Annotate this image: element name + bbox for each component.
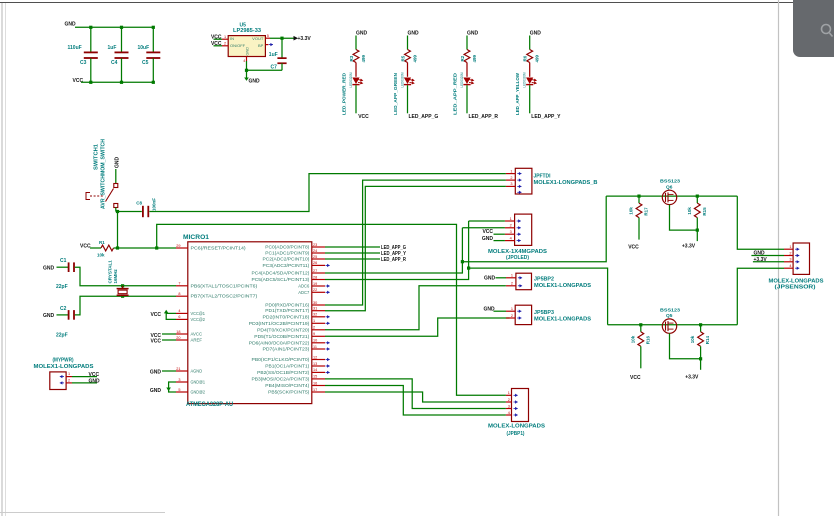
svg-text:7: 7 — [178, 282, 180, 286]
svg-text:1: 1 — [508, 391, 510, 395]
svg-text:+3.3V: +3.3V — [298, 36, 312, 42]
svg-text:17: 17 — [313, 388, 317, 392]
svg-text:GND: GND — [150, 388, 162, 394]
svg-text:10k: 10k — [97, 252, 105, 257]
svg-text:27: 27 — [313, 269, 317, 273]
svg-text:1: 1 — [224, 35, 226, 39]
svg-text:R2: R2 — [460, 55, 465, 61]
svg-text:LED_APP_RED: LED_APP_RED — [453, 72, 459, 115]
svg-text:GND: GND — [408, 30, 420, 36]
svg-text:BSS123: BSS123 — [660, 179, 680, 185]
svg-text:GND: GND — [43, 265, 55, 271]
svg-text:+3.3V: +3.3V — [682, 244, 696, 250]
svg-text:C3: C3 — [80, 60, 87, 66]
svg-text:VCC: VCC — [80, 243, 91, 249]
svg-text:ADC7: ADC7 — [298, 290, 310, 295]
svg-text:18: 18 — [176, 330, 180, 334]
svg-text:24: 24 — [313, 249, 317, 253]
svg-text:GND@1: GND@1 — [191, 380, 206, 385]
svg-text:GND: GND — [484, 307, 496, 313]
svg-text:Q5: Q5 — [666, 313, 673, 319]
svg-text:25: 25 — [313, 255, 317, 259]
svg-text:499: 499 — [535, 54, 540, 62]
svg-text:VCC@1: VCC@1 — [191, 311, 206, 316]
svg-text:100nF: 100nF — [152, 198, 157, 211]
svg-text:GND@2: GND@2 — [191, 390, 206, 395]
svg-text:9: 9 — [313, 332, 315, 336]
svg-text:VCC: VCC — [358, 114, 369, 120]
svg-text:PD3(INT1/OC2B/PCINT19): PD3(INT1/OC2B/PCINT19) — [249, 321, 310, 326]
svg-text:1: 1 — [510, 217, 512, 221]
svg-text:+3.3V: +3.3V — [685, 374, 699, 380]
svg-text:R16: R16 — [645, 336, 650, 345]
svg-text:10k: 10k — [687, 207, 692, 215]
svg-text:PD2(INT0/PCINT18): PD2(INT0/PCINT18) — [263, 314, 310, 319]
svg-text:C7: C7 — [271, 65, 278, 71]
svg-text:C8: C8 — [136, 201, 142, 206]
svg-text:JP5BP3: JP5BP3 — [534, 310, 554, 316]
svg-text:Q6: Q6 — [666, 184, 673, 190]
svg-text:LED_APP_YELLOW: LED_APP_YELLOW — [515, 73, 521, 115]
svg-text:CRYSTAL1: CRYSTAL1 — [108, 260, 113, 284]
svg-text:3: 3 — [789, 258, 791, 262]
svg-text:19: 19 — [313, 282, 317, 286]
svg-text:ON/OFF: ON/OFF — [230, 43, 246, 48]
svg-text:PC3(ADC3/PCINT11): PC3(ADC3/PCINT11) — [263, 263, 310, 268]
svg-text:MOLEX-LONGPADS: MOLEX-LONGPADS — [488, 424, 546, 430]
svg-text:4: 4 — [508, 411, 510, 415]
svg-text:1: 1 — [511, 274, 513, 278]
svg-text:VCC: VCC — [73, 78, 84, 84]
svg-text:PB6(XTAL1/TOSC1/PCINT6): PB6(XTAL1/TOSC1/PCINT6) — [191, 283, 258, 288]
svg-text:AVR_SWITCHMOM_SWITCH: AVR_SWITCHMOM_SWITCH — [101, 139, 107, 209]
svg-text:PD7(AIN1/PCINT23): PD7(AIN1/PCINT23) — [263, 347, 310, 352]
svg-text:12: 12 — [313, 355, 317, 359]
svg-text:16: 16 — [313, 381, 317, 385]
svg-text:GND: GND — [43, 313, 55, 319]
svg-text:C1: C1 — [60, 258, 67, 264]
svg-text:C5: C5 — [142, 60, 149, 66]
svg-text:3: 3 — [508, 404, 510, 408]
svg-text:2: 2 — [511, 282, 513, 286]
svg-text:PC0(ADC0/PCINT8): PC0(ADC0/PCINT8) — [265, 245, 310, 250]
svg-text:4: 4 — [789, 264, 791, 268]
svg-text:10uF: 10uF — [138, 45, 150, 51]
svg-text:MOLEX1-LONGPADS: MOLEX1-LONGPADS — [34, 364, 95, 370]
svg-text:2: 2 — [789, 251, 791, 255]
svg-text:PC4(ADC4/SDA/PCINT12): PC4(ADC4/SDA/PCINT12) — [252, 271, 310, 276]
svg-text:PD4(T0/XCK/PCINT20): PD4(T0/XCK/PCINT20) — [257, 327, 310, 332]
svg-text:VCC: VCC — [150, 339, 161, 345]
svg-text:AVCC: AVCC — [191, 332, 203, 337]
svg-text:GND: GND — [89, 378, 101, 384]
svg-text:2: 2 — [68, 378, 70, 382]
svg-text:C2: C2 — [60, 306, 67, 312]
svg-text:PB1(OC1A/PCINT1): PB1(OC1A/PCINT1) — [265, 364, 310, 369]
svg-text:ATMEGA328P-AU: ATMEGA328P-AU — [186, 402, 233, 408]
svg-text:4: 4 — [178, 309, 180, 313]
svg-text:LED_POWER_RED: LED_POWER_RED — [342, 72, 348, 115]
svg-text:AREF: AREF — [191, 338, 203, 343]
svg-text:VCC: VCC — [628, 244, 639, 250]
svg-text:JPFTDI: JPFTDI — [534, 174, 552, 180]
svg-text:GND: GND — [356, 30, 368, 36]
svg-text:VCC: VCC — [150, 312, 161, 318]
svg-text:5: 5 — [178, 388, 180, 392]
svg-text:3: 3 — [510, 182, 512, 186]
svg-text:PD1(TXD/PCINT17): PD1(TXD/PCINT17) — [265, 308, 310, 313]
svg-text:4: 4 — [243, 59, 245, 63]
svg-text:GND: GND — [65, 22, 77, 28]
svg-text:20: 20 — [176, 336, 180, 340]
svg-text:LED0320M: LED0320M — [401, 72, 405, 87]
svg-text:AGND: AGND — [191, 369, 203, 374]
svg-text:1: 1 — [68, 372, 70, 376]
svg-text:VCC: VCC — [482, 229, 493, 235]
svg-text:PD5(T1/OC0B/PCINT21): PD5(T1/OC0B/PCINT21) — [254, 334, 310, 339]
svg-text:10k: 10k — [629, 207, 634, 215]
svg-text:1: 1 — [510, 169, 512, 173]
svg-text:GND: GND — [482, 236, 494, 242]
svg-text:GND: GND — [467, 30, 479, 36]
svg-text:16MHz: 16MHz — [113, 268, 118, 283]
svg-text:22pF: 22pF — [56, 284, 68, 290]
svg-text:PD6(AIN0/OC0A/PCINT22): PD6(AIN0/OC0A/PCINT22) — [249, 340, 310, 345]
svg-text:C4: C4 — [111, 60, 118, 66]
svg-text:3: 3 — [178, 378, 180, 382]
svg-text:4: 4 — [510, 236, 512, 240]
svg-text:VOUT: VOUT — [252, 36, 264, 41]
svg-text:10k: 10k — [690, 335, 695, 343]
svg-text:LED_APP_R: LED_APP_R — [469, 114, 499, 120]
svg-text:PB3(MOSI/OC2A/PCINT3): PB3(MOSI/OC2A/PCINT3) — [252, 376, 310, 381]
svg-text:LED0320M: LED0320M — [349, 72, 353, 87]
svg-text:13: 13 — [313, 362, 317, 366]
svg-text:VCC@2: VCC@2 — [191, 317, 206, 322]
svg-text:JP5BP2: JP5BP2 — [534, 277, 554, 283]
svg-text:6: 6 — [178, 315, 180, 319]
svg-text:3: 3 — [510, 230, 512, 234]
svg-text:499: 499 — [472, 54, 477, 62]
svg-text:(JPBP1): (JPBP1) — [507, 431, 525, 437]
svg-text:VCC: VCC — [630, 375, 641, 381]
svg-text:14: 14 — [313, 368, 317, 372]
svg-text:R1: R1 — [99, 240, 105, 245]
svg-text:SWITCH1: SWITCH1 — [94, 144, 100, 170]
svg-text:1: 1 — [511, 307, 513, 311]
svg-text:(JPOLED): (JPOLED) — [506, 255, 529, 261]
svg-text:2: 2 — [313, 326, 315, 330]
svg-text:LED_APP_Y: LED_APP_Y — [531, 114, 561, 120]
svg-text:PB2(SS/OC1B/PCINT2): PB2(SS/OC1B/PCINT2) — [257, 370, 310, 375]
svg-text:MOLEX1-LONGPADS_B: MOLEX1-LONGPADS_B — [534, 180, 598, 186]
svg-text:GND: GND — [115, 157, 121, 169]
svg-text:PD0(RXD/PCINT16): PD0(RXD/PCINT16) — [265, 303, 310, 308]
svg-text:2: 2 — [510, 224, 512, 228]
svg-text:(MYPWR): (MYPWR) — [53, 357, 74, 363]
svg-text:30: 30 — [313, 301, 317, 305]
svg-text:15: 15 — [313, 375, 317, 379]
svg-text:LED_APP_GREEN: LED_APP_GREEN — [393, 72, 399, 115]
svg-text:22pF: 22pF — [56, 332, 68, 338]
svg-text:GND: GND — [150, 370, 162, 376]
svg-text:(JPSENSOR): (JPSENSOR) — [775, 284, 816, 290]
svg-text:R14: R14 — [705, 336, 710, 345]
svg-text:22: 22 — [313, 288, 317, 292]
svg-text:GND: GND — [245, 47, 249, 56]
svg-text:1: 1 — [789, 245, 791, 249]
svg-text:11: 11 — [313, 345, 317, 349]
svg-text:499: 499 — [361, 54, 366, 62]
svg-text:10: 10 — [313, 339, 317, 343]
svg-text:BP: BP — [258, 43, 264, 48]
svg-text:PB4(MISO/PCINT4): PB4(MISO/PCINT4) — [265, 383, 310, 388]
svg-text:R15: R15 — [702, 207, 707, 216]
svg-text:GND: GND — [484, 275, 496, 281]
svg-text:26: 26 — [313, 261, 317, 265]
svg-text:MOLEX1-LONGPADS: MOLEX1-LONGPADS — [534, 316, 592, 322]
svg-text:LED0320M: LED0320M — [460, 72, 464, 87]
svg-text:2: 2 — [224, 42, 226, 46]
svg-text:23: 23 — [313, 243, 317, 247]
svg-text:R5: R5 — [400, 55, 405, 61]
svg-text:PC1(ADC1/PCINT9): PC1(ADC1/PCINT9) — [265, 251, 310, 256]
svg-text:LED_APP_G: LED_APP_G — [409, 114, 439, 120]
svg-text:VCC: VCC — [89, 372, 100, 378]
svg-text:10k: 10k — [630, 335, 635, 343]
svg-text:MICRO1: MICRO1 — [183, 235, 210, 241]
svg-text:110uF: 110uF — [68, 45, 82, 51]
svg-text:GND: GND — [530, 30, 542, 36]
svg-text:BSS123: BSS123 — [660, 307, 680, 313]
svg-text:PB7(XTAL2/TOSC2/PCINT7): PB7(XTAL2/TOSC2/PCINT7) — [191, 294, 258, 299]
svg-text:PB5(SCK/PCINT5): PB5(SCK/PCINT5) — [268, 390, 310, 395]
svg-text:8: 8 — [178, 292, 180, 296]
svg-text:ADC6: ADC6 — [298, 284, 310, 289]
svg-text:5: 5 — [267, 34, 269, 38]
svg-text:PB0(ICP1/CLKO/PCINT0): PB0(ICP1/CLKO/PCINT0) — [252, 357, 310, 362]
svg-text:IN: IN — [230, 36, 234, 41]
svg-text:GND: GND — [249, 78, 261, 84]
svg-text:21: 21 — [176, 367, 180, 371]
svg-text:31: 31 — [313, 307, 317, 311]
svg-text:1uF: 1uF — [269, 52, 278, 58]
svg-text:PC2(ADC2/PCINT10): PC2(ADC2/PCINT10) — [263, 257, 310, 262]
svg-text:2: 2 — [510, 176, 512, 180]
svg-text:LP2985-33: LP2985-33 — [233, 28, 261, 34]
svg-text:2: 2 — [511, 314, 513, 318]
svg-text:1: 1 — [313, 319, 315, 323]
svg-text:1uF: 1uF — [108, 45, 117, 51]
svg-text:MOLEX1-LONGPADS: MOLEX1-LONGPADS — [534, 283, 592, 289]
svg-text:LED_APP_R: LED_APP_R — [381, 257, 406, 263]
svg-text:2: 2 — [508, 398, 510, 402]
svg-text:32: 32 — [313, 313, 317, 317]
svg-text:R3: R3 — [349, 55, 354, 61]
svg-text:PC6(/RESET/PCINT14): PC6(/RESET/PCINT14) — [191, 246, 247, 251]
svg-text:R17: R17 — [644, 207, 649, 216]
svg-text:29: 29 — [176, 244, 180, 248]
svg-text:499: 499 — [413, 54, 418, 62]
svg-text:PC5(ADC5/SCL/PCINT13): PC5(ADC5/SCL/PCINT13) — [252, 277, 310, 282]
svg-text:LED0320M: LED0320M — [523, 72, 527, 87]
svg-text:R6: R6 — [523, 55, 528, 61]
svg-text:28: 28 — [313, 275, 317, 279]
